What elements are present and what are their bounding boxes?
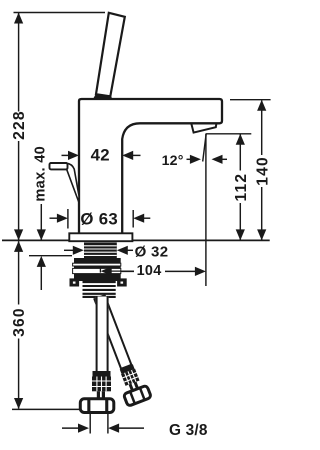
dimension 228 line <box>18 13 20 112</box>
faucet body outline <box>79 99 222 233</box>
dimension G38 line <box>62 427 79 429</box>
arrow d32 right <box>117 246 128 255</box>
svg-text:104: 104 <box>137 263 162 279</box>
svg-text:112: 112 <box>233 173 250 202</box>
handle base <box>93 95 113 100</box>
dimension d63 tails <box>50 217 59 219</box>
dimension d32 tails <box>64 249 74 251</box>
arrow G38 right <box>108 424 119 433</box>
svg-text:Ø 32: Ø 32 <box>135 244 169 261</box>
svg-text:140: 140 <box>255 156 272 186</box>
arrow max40 bottom <box>37 256 46 267</box>
arrow max40 top <box>37 229 46 240</box>
dimension 112 extension line <box>206 133 251 135</box>
countertop line <box>2 239 270 241</box>
washer band <box>74 258 121 263</box>
dimension 140 line <box>261 101 263 156</box>
faucet axis tick <box>99 266 101 273</box>
lower dark band <box>74 274 121 281</box>
dimension 112 line <box>239 135 241 171</box>
right tab <box>117 278 127 286</box>
arrow 12deg left <box>190 155 201 164</box>
arrow d32 left <box>73 246 84 255</box>
threaded shank <box>84 243 117 259</box>
dimension 12deg tails <box>187 158 192 160</box>
faucet axis tick redraw <box>99 267 101 273</box>
arrow 42 left <box>68 151 79 160</box>
arrow d63 right <box>133 214 144 223</box>
dimension 140 extension line <box>230 99 271 101</box>
arrow 42 right <box>122 151 133 160</box>
side lever strut <box>66 163 79 203</box>
svg-text:228: 228 <box>11 110 28 140</box>
arrow 112 bottom <box>236 229 245 240</box>
arrow 228 bottom <box>14 229 23 240</box>
arrow 104 left <box>101 267 112 276</box>
aerator <box>191 124 216 133</box>
dimension d63 extension lines <box>67 209 69 229</box>
arrow 228 top <box>14 13 23 24</box>
dimension 360 line <box>18 241 20 304</box>
jet 12deg line <box>203 134 207 162</box>
arrow 360 bottom <box>14 398 23 409</box>
arrow 140 top <box>257 100 266 111</box>
arrow 104 right <box>195 267 206 276</box>
crimp <box>92 377 111 392</box>
arrow 104 left redraw <box>101 267 112 276</box>
countertop underside line <box>29 255 72 257</box>
lower threaded block <box>83 281 116 298</box>
mounting nut band <box>73 268 121 273</box>
arrow 112 top <box>236 134 245 145</box>
arrow 140 bottom <box>257 229 266 240</box>
dimension max40 lower stem <box>40 267 42 291</box>
arrow G38 left <box>78 424 89 433</box>
arrow 360 top <box>14 241 23 252</box>
arrow 12deg right <box>212 155 223 164</box>
aerator outlet extension line <box>205 134 207 286</box>
escutcheon plate <box>69 233 132 241</box>
dimension G38 extension lines <box>89 413 91 434</box>
hose end band <box>93 371 111 377</box>
svg-text:Ø 63: Ø 63 <box>80 209 118 228</box>
svg-text:max. 40: max. 40 <box>33 146 49 202</box>
dimension max40 line <box>40 204 42 240</box>
side lever bar <box>50 163 68 169</box>
lever handle <box>96 13 125 97</box>
dimension 228 extension line top <box>14 12 106 14</box>
dark ring <box>74 266 121 268</box>
arrow d63 left <box>57 214 68 223</box>
left tab <box>70 278 80 286</box>
flexible hose vertical <box>80 297 114 413</box>
svg-text:42: 42 <box>91 145 110 164</box>
dimension 104 tails <box>110 270 134 272</box>
dimension 360 bottom extension line <box>12 408 80 410</box>
svg-text:12°: 12° <box>162 153 184 169</box>
svg-text:G 3/8: G 3/8 <box>169 422 208 439</box>
dimension 42 tails <box>62 154 70 156</box>
flexible hose right diagonal <box>88 293 151 407</box>
neck <box>97 391 100 399</box>
connector nut <box>80 399 114 413</box>
svg-text:360: 360 <box>11 307 28 337</box>
white ring <box>73 263 121 266</box>
